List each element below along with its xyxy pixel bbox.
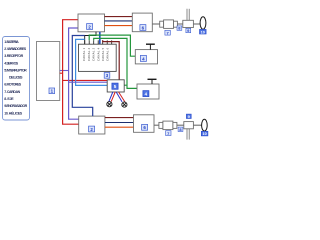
receptor R1 bbox=[79, 44, 117, 71]
cardan C1 bbox=[160, 20, 178, 29]
label 6 bbox=[140, 25, 146, 31]
wire blue to lamp L1 bbox=[109, 92, 113, 102]
wire red to lamp L1 bbox=[111, 92, 115, 102]
svg-text:CANAL 1: CANAL 1 bbox=[82, 47, 86, 61]
svg-text:CANAL 2: CANAL 2 bbox=[87, 47, 91, 61]
receptor pins bbox=[85, 40, 112, 44]
servo S2 bbox=[137, 84, 159, 99]
wire purple branch to switch bbox=[69, 81, 108, 83]
servo S1 horn bbox=[146, 44, 155, 49]
label 2 bbox=[87, 24, 93, 30]
label 2 bbox=[89, 126, 95, 132]
label 1 bbox=[49, 88, 55, 94]
wire maroon bbox=[105, 16, 133, 18]
svg-text:9. ENGRASADOR: 9. ENGRASADOR bbox=[4, 104, 27, 108]
engrasador E1 bbox=[183, 20, 194, 27]
wire navy bbox=[105, 20, 133, 22]
helice P2 bbox=[202, 119, 208, 131]
wire blue V1 to receptor bbox=[99, 32, 101, 44]
svg-text:4. SERVOS: 4. SERVOS bbox=[4, 61, 19, 65]
svg-text:3. RECEPTOR: 3. RECEPTOR bbox=[4, 54, 23, 58]
wire purple bus bbox=[69, 28, 80, 119]
wire red to lamp L2 bbox=[119, 92, 125, 102]
engrasador E1 tube bbox=[187, 9, 189, 20]
servo S1 bbox=[135, 50, 157, 64]
svg-text:CANAL 3: CANAL 3 bbox=[92, 47, 96, 61]
label 10 bbox=[200, 29, 207, 34]
helice P1 bbox=[200, 17, 206, 29]
label 7 bbox=[165, 30, 170, 35]
label 4 bbox=[143, 91, 149, 97]
label 9 bbox=[186, 28, 191, 33]
label 3 bbox=[104, 73, 110, 79]
legend box bbox=[3, 37, 30, 121]
svg-text:10: 10 bbox=[201, 30, 205, 34]
wire green2 receptor to servo S2 bbox=[94, 38, 137, 88]
label 9 bbox=[186, 114, 191, 119]
lamp L1 bbox=[107, 102, 112, 107]
motor M2 bbox=[134, 115, 155, 133]
svg-text:CANAL 4: CANAL 4 bbox=[96, 47, 100, 61]
label 8 bbox=[177, 26, 182, 31]
wire navy bbox=[105, 122, 134, 124]
svg-text:DE LUCES: DE LUCES bbox=[9, 76, 23, 80]
switch S5 (interruptor de luces) bbox=[107, 80, 124, 92]
shaft to prop bbox=[193, 23, 200, 25]
svg-text:2. VARIADORES: 2. VARIADORES bbox=[4, 47, 27, 51]
wire blue to lamp L2 bbox=[116, 92, 122, 102]
wire black V1 to receptor pin bbox=[85, 32, 96, 44]
battery stub purple bbox=[60, 70, 69, 72]
svg-text:CANAL 5: CANAL 5 bbox=[101, 47, 105, 61]
lamp L2 bbox=[122, 102, 127, 107]
shaft motor M2 out bbox=[154, 124, 159, 126]
variador V2 (ESC bottom) bbox=[79, 116, 105, 134]
svg-text:1. BATERIA: 1. BATERIA bbox=[4, 40, 19, 44]
svg-text:7. CARDAN: 7. CARDAN bbox=[4, 90, 20, 94]
wire navy receptor to V2 bbox=[72, 36, 92, 117]
wire maroon receptor to switch bbox=[103, 40, 120, 80]
svg-text:10. HÉLICES: 10. HÉLICES bbox=[4, 110, 23, 115]
shaft (eje) bbox=[177, 124, 184, 126]
shaft (eje) bbox=[177, 23, 182, 25]
label 6 bbox=[142, 124, 148, 130]
svg-text:CANAL 6: CANAL 6 bbox=[106, 47, 110, 61]
legend text bbox=[4, 40, 27, 116]
motor M1 bbox=[132, 13, 152, 32]
shaft motor M1 out bbox=[152, 23, 159, 25]
label 7 bbox=[166, 131, 171, 136]
svg-text:8. EJE: 8. EJE bbox=[4, 97, 14, 101]
wire maroon bbox=[105, 117, 134, 119]
engrasador E2 bbox=[184, 122, 194, 129]
wire red bus bbox=[63, 20, 79, 125]
servo S2 horn bbox=[148, 79, 157, 84]
label 8 bbox=[178, 127, 183, 132]
battery stub red bbox=[60, 72, 63, 74]
wire lightblue receptor to switch bbox=[76, 39, 108, 85]
svg-text:5: 5 bbox=[114, 84, 117, 89]
label 10 bbox=[201, 131, 208, 136]
svg-text:5. INTERRUPTOR: 5. INTERRUPTOR bbox=[4, 68, 27, 72]
wire green tap to switch bbox=[124, 84, 127, 86]
shaft to prop bbox=[193, 124, 201, 126]
wire green1 receptor to servo S1 bbox=[89, 35, 135, 56]
engrasador E2 tube bbox=[187, 129, 189, 140]
svg-text:10: 10 bbox=[202, 132, 206, 136]
label 4 bbox=[140, 55, 146, 61]
label 5 bbox=[112, 83, 118, 89]
wire orange bbox=[105, 25, 133, 27]
receptor channel text bbox=[82, 47, 110, 61]
wire red branch to switch bbox=[63, 79, 108, 81]
wire orange bbox=[105, 126, 134, 128]
variador V1 (ESC top) bbox=[78, 14, 105, 32]
cardan C2 bbox=[159, 121, 177, 130]
svg-text:6. MOTORES: 6. MOTORES bbox=[4, 83, 22, 87]
battery B1 (bateria) bbox=[37, 42, 60, 101]
